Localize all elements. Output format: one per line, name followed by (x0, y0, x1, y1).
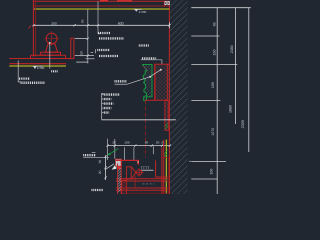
svg-text:2300: 2300 (241, 120, 245, 128)
wall hatch (170, 0, 187, 194)
sill red tick (137, 160, 139, 164)
cluster B left tie (86, 58, 95, 60)
fixture cross v (138, 168, 140, 176)
bdim tick1 (107, 145, 109, 147)
pedestal base slab (41, 52, 61, 55)
svg-text:100: 100 (210, 169, 214, 175)
white leader to block (105, 164, 114, 170)
wall layer top red tie (161, 156, 170, 158)
lower double line 2a (116, 187, 168, 189)
ceiling red line 2 (34, 5, 170, 7)
bdim tick5 (161, 145, 163, 147)
fixture triangle (131, 167, 136, 179)
small tick top (92, 152, 96, 154)
wall face line (168, 2, 170, 194)
svg-text:TTTT: TTTT (141, 166, 150, 170)
right chain vline 2 (216, 8, 218, 194)
cluster A row 2 (99, 37, 124, 39)
svg-text:35: 35 (161, 140, 165, 144)
pedestal leader text (51, 70, 58, 72)
svg-text:95: 95 (212, 22, 216, 26)
svg-text:600: 600 (118, 21, 124, 25)
bottom dim extension c (124, 147, 126, 160)
pedestal leader line (49, 43, 51, 69)
chain hline y36 (191, 35, 219, 37)
green ticks lower (164, 176, 167, 182)
right step L hline (156, 176, 168, 178)
top dimension line (34, 24, 170, 26)
svg-text:80: 80 (145, 140, 149, 144)
svg-text:2.380: 2.380 (139, 10, 147, 14)
red crosshatch block (122, 180, 127, 194)
svg-text:190: 190 (211, 82, 215, 88)
lower ceiling red line 1 (9, 58, 71, 60)
channel upright (71, 38, 74, 58)
molding leader dot 1 (149, 76, 151, 78)
lower double line 1b (116, 180, 168, 182)
dim tick 2 (74, 24, 76, 26)
right chain vline 4 (248, 8, 250, 152)
extension line x98 (97, 2, 99, 35)
right chain vline 3 (234, 8, 236, 124)
bdim tick2 (114, 145, 116, 147)
fixture bracket (126, 167, 131, 179)
bottom dimension line (108, 145, 170, 147)
dim tick 4 (97, 24, 99, 26)
svg-text:20: 20 (98, 170, 102, 174)
left note row 1 (19, 77, 30, 79)
ceiling top thick red segment 1 (100, 0, 108, 2)
svg-text:100: 100 (124, 140, 129, 144)
svg-text:1070: 1070 (211, 128, 215, 136)
molding leader dot 2 (160, 69, 162, 71)
left post vline 2 (120, 160, 122, 194)
dim tick 3 (87, 24, 89, 26)
molding chamfer line (143, 65, 147, 70)
left bulkhead vline dark (35, 0, 37, 57)
150 dim bottom tick line (76, 61, 88, 63)
150 dim upper tie line (75, 38, 88, 40)
150 dim oblique tick a (87, 55, 89, 57)
chain hline y100 (191, 100, 220, 102)
ceiling yellow line (34, 8, 170, 10)
bottom dark red line (127, 192, 168, 194)
cluster B row 1 (97, 49, 110, 51)
150 dim lower tie line (75, 55, 94, 57)
svg-text:2.380: 2.380 (37, 66, 45, 70)
chain hline y161 (191, 160, 226, 162)
fixture drop line (134, 176, 136, 188)
bdim tick3 (134, 145, 136, 147)
svg-text:35: 35 (112, 140, 116, 144)
lower ceiling red line 2 (9, 63, 66, 65)
pedestal circle (46, 33, 57, 44)
left note row 2 (21, 82, 45, 85)
pedestal lower slab right side (65, 55, 67, 58)
bottom-left note row (92, 189, 104, 191)
crown molding profile (143, 64, 152, 100)
cluster A row 1 (98, 32, 110, 34)
150 dim oblique tick b (87, 38, 89, 40)
bottom dim extension a (107, 139, 109, 160)
sill top red line (116, 159, 139, 161)
cluster B bracket (91, 52, 94, 54)
dim tick 1 (32, 24, 34, 26)
svg-text:80: 80 (81, 19, 85, 23)
red corner tick (29, 25, 31, 28)
wall layer red b (161, 148, 163, 194)
narrow band green ticks (165, 123, 168, 129)
bottom dim extension b (114, 139, 116, 159)
wall layer red dark (167, 157, 169, 194)
list row 3 (102, 103, 104, 105)
right step L vline (155, 160, 157, 177)
elevation marker top (134, 9, 147, 14)
molding top annotation row (142, 57, 157, 59)
svg-text:2380: 2380 (230, 45, 234, 53)
left bulkhead vline bright (32, 0, 34, 57)
left post red dot (118, 166, 121, 169)
annotation list bracket (102, 93, 104, 120)
chain dot y161 (189, 161, 190, 162)
pedestal lower slab line (31, 54, 66, 56)
fixture circle (137, 170, 142, 175)
green leader arrow (109, 149, 119, 155)
svg-text:50: 50 (156, 140, 160, 144)
left post gray hatch (118, 168, 121, 192)
svg-text:150: 150 (212, 50, 216, 56)
narrow hatched band (165, 100, 168, 130)
gray block (115, 159, 121, 166)
molding leader underline (115, 83, 128, 85)
note row left of 30 dim (83, 154, 96, 156)
ceiling right end vline (163, 1, 165, 6)
shelf line under molding (145, 99, 168, 101)
annotation row top (under 600) (139, 44, 149, 46)
svg-text:1880: 1880 (229, 105, 233, 113)
left note leader (18, 61, 21, 82)
hidden red vline (145, 100, 147, 157)
sill white dot (137, 161, 138, 162)
bottom dim extension d (133, 147, 135, 160)
bdim tick6 (169, 145, 171, 147)
pedestal bell (46, 44, 58, 52)
cluster B row 2 (99, 55, 118, 57)
crown backing hatched band (154, 64, 169, 100)
wall layer yellow (165, 140, 167, 194)
wall layer red a (163, 140, 165, 194)
dim end cross (168, 22, 170, 28)
pedestal lower slab left side (30, 55, 32, 58)
TTTT underline (140, 169, 153, 171)
chain hline y179 (191, 178, 217, 180)
list base line (102, 119, 176, 121)
chain hline y64 (191, 63, 237, 65)
top-right section marker X box (165, 1, 170, 4)
extension line x87.8 (87, 9, 89, 63)
note underline (83, 157, 109, 159)
left post vline bright (117, 163, 119, 194)
ceiling top bright red line (34, 0, 170, 2)
molding leader line (127, 70, 161, 85)
vdim tick2 (105, 166, 107, 168)
svg-text:30: 30 (98, 160, 102, 164)
green ticks upper (164, 151, 167, 157)
list row 2 (102, 98, 104, 100)
pedestal centerline vertical (51, 31, 53, 46)
vdim tick3 (105, 176, 107, 178)
chain hline top (191, 7, 251, 9)
vdim tick1 (105, 155, 107, 157)
list row 1 (102, 94, 104, 96)
gray dashes (143, 183, 154, 185)
dim end tick (168, 24, 170, 26)
molding top annotation leader (141, 60, 162, 65)
lower double line 1a (116, 178, 168, 180)
bottom dim extension e (152, 146, 154, 154)
svg-text:150: 150 (79, 51, 83, 57)
fixture cross h (135, 171, 144, 173)
list row 5 (102, 112, 104, 114)
bdim tick4 (151, 145, 153, 147)
cluster A bracket foot (98, 33, 100, 35)
list row 4 (102, 107, 104, 109)
vertical dim 30/20 line (105, 155, 107, 180)
pedestal centerline horizontal (44, 38, 59, 40)
pedestal leader dot (49, 42, 51, 44)
svg-text:200: 200 (51, 21, 57, 25)
elevation marker mid-left (33, 66, 45, 70)
molding leader text row (115, 80, 128, 82)
lower double line 2b (116, 189, 168, 191)
ceiling top thick red segment 2 (117, 0, 132, 2)
lower ceiling yellow line (9, 65, 66, 67)
